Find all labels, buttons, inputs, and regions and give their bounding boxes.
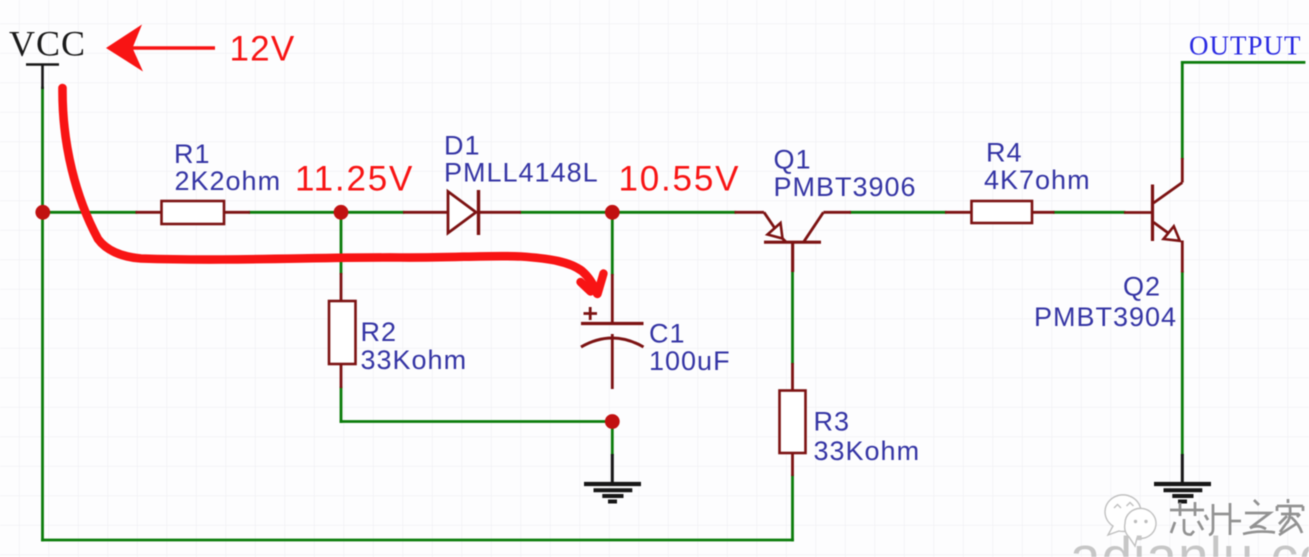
wire: R3 bottom green [791, 476, 794, 540]
transistor Q1 [735, 212, 852, 272]
node B junction dot (R2 top) [334, 205, 349, 220]
wire: bottom rail [43, 539, 793, 542]
annotation: red arrow to VCC [106, 25, 143, 72]
svg-text:Q1: Q1 [774, 144, 812, 174]
wire: main rail segment node2 to D1 [341, 211, 403, 214]
wire: C1 bottom node to ground green part [611, 422, 614, 455]
svg-text:100uF: 100uF [649, 346, 731, 376]
wire: Q2 collector green vertical [1181, 62, 1184, 158]
svg-text:R4: R4 [986, 138, 1023, 168]
wire: main rail segment node3 to Q1 [612, 211, 734, 214]
node A junction dot (VCC rail) [35, 205, 50, 220]
wire: C1 column top green [611, 212, 614, 274]
wire: main rail segment D1 to node3 [521, 211, 612, 214]
svg-text:10.55V: 10.55V [619, 159, 741, 198]
wire: OUTPUT horizontal [1182, 61, 1304, 64]
node C junction dot (10.55V / C1 top) [605, 205, 620, 220]
svg-text:adianlu.com: adianlu.com [1070, 525, 1309, 557]
svg-text:OUTPUT: OUTPUT [1189, 31, 1302, 61]
svg-text:12V: 12V [230, 30, 296, 69]
wire: R2 column bottom green [340, 388, 343, 422]
ground (below Q2) [1154, 454, 1211, 502]
watermark: 芯片之家 [1170, 499, 1303, 535]
wire: R4 to Q2 base [1055, 211, 1125, 214]
svg-text:33Kohm: 33Kohm [814, 436, 921, 466]
watermark: wechat logo bubbles [1105, 495, 1156, 546]
resistor R1 [136, 201, 251, 224]
svg-text:R1: R1 [174, 139, 211, 169]
capacitor C1 [581, 274, 644, 389]
wire: left vertical VCC column x=42.5 [41, 88, 44, 540]
svg-text:VCC: VCC [9, 24, 86, 64]
wire: horizontal R2 to C1 bottom node [341, 420, 612, 423]
VCC power symbol [26, 65, 59, 90]
svg-text:Q2: Q2 [1123, 272, 1161, 302]
svg-text:PMBT3904: PMBT3904 [1034, 302, 1177, 332]
svg-text:PMLL4148L: PMLL4148L [444, 158, 599, 188]
svg-text:PMBT3906: PMBT3906 [774, 172, 917, 202]
svg-text:R2: R2 [361, 317, 398, 347]
svg-text:4K7ohm: 4K7ohm [984, 165, 1091, 195]
svg-text:2K2ohm: 2K2ohm [175, 166, 282, 196]
resistor R4 [945, 201, 1055, 223]
wire: main rail segment R1 to node2 [250, 211, 341, 214]
wire: Q1 base column green [791, 272, 794, 363]
resistor R2 [329, 273, 356, 388]
wire: main rail segment node1 to R1 [43, 211, 136, 214]
resistor R3 [780, 242, 806, 476]
annotation: red swoosh curve with arrowhead [62, 88, 603, 294]
wire: Q1 collector to R4 [851, 211, 945, 214]
svg-text:C1: C1 [649, 319, 686, 349]
svg-text:33Kohm: 33Kohm [361, 345, 468, 375]
wire: Q2 emitter green vertical to ground [1181, 273, 1184, 455]
ground (below C1) [584, 454, 641, 502]
node D junction dot (C1 bottom) [605, 414, 620, 429]
wire: R2 column top green [340, 212, 343, 273]
svg-text:D1: D1 [444, 131, 481, 161]
svg-text:R3: R3 [814, 407, 851, 437]
transistor Q2 [1124, 158, 1182, 273]
svg-text:11.25V: 11.25V [295, 159, 414, 198]
diode D1 [403, 190, 521, 235]
